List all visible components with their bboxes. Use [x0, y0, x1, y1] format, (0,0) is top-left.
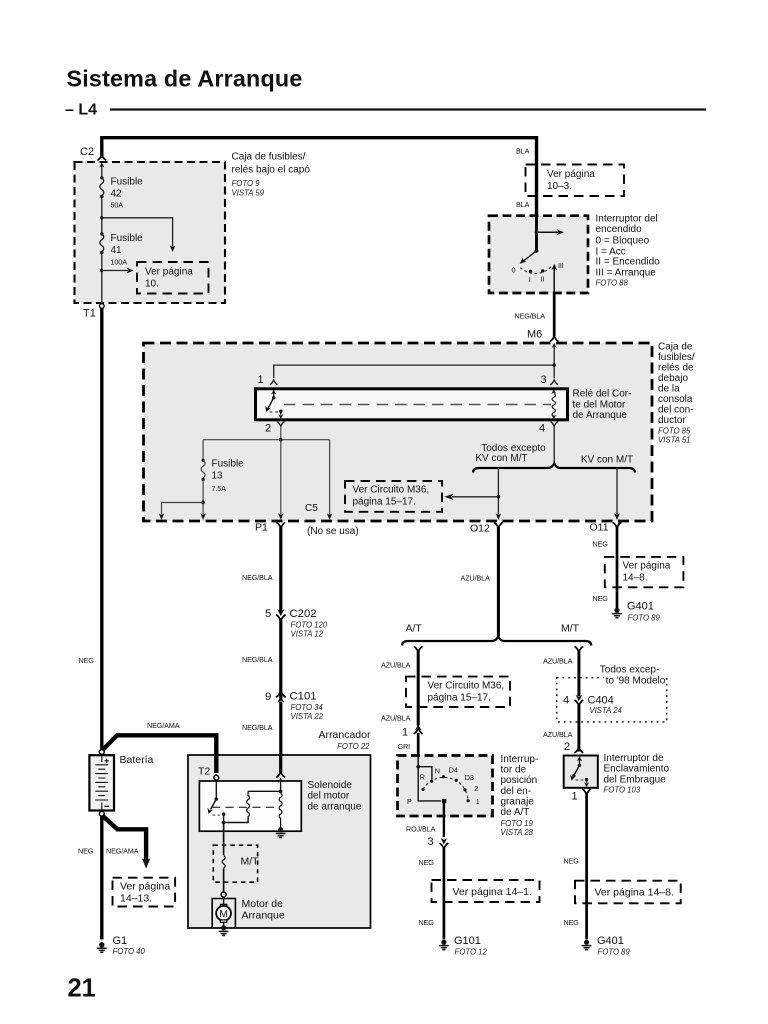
- connector solenoid input fork: [276, 772, 285, 777]
- svg-text:de Arranque: de Arranque: [573, 410, 628, 421]
- svg-text:C202: C202: [290, 608, 317, 620]
- wire: clutch down to G401: [585, 794, 588, 940]
- svg-text:FOTO 103: FOTO 103: [604, 786, 641, 795]
- svg-text:O12: O12: [470, 523, 490, 535]
- ref box Ver Circuito M36 (A/T): [406, 677, 510, 707]
- svg-text:Fusible: Fusible: [212, 459, 245, 470]
- relay mechanical dashed line: [284, 404, 551, 406]
- svg-text:NEG/BLA: NEG/BLA: [242, 655, 273, 664]
- svg-text:FOTO 22: FOTO 22: [337, 742, 370, 751]
- node clutch top contact: [578, 764, 581, 767]
- main under-dash fuse/relay box (dashed): [144, 343, 653, 521]
- svg-text:II: II: [541, 274, 545, 283]
- svg-text:FOTO 120: FOTO 120: [291, 621, 328, 630]
- ground motor: [221, 925, 226, 930]
- header rule: [110, 108, 706, 110]
- ground G401 lower: [584, 940, 589, 945]
- node pivot square: [442, 799, 446, 803]
- svg-text:Relé del Cor-: Relé del Cor-: [573, 389, 632, 400]
- svg-text:C101: C101: [290, 691, 317, 703]
- svg-text:VISTA 28: VISTA 28: [501, 828, 534, 837]
- svg-text:BLA: BLA: [516, 147, 530, 156]
- connector O12 cup: [494, 522, 503, 527]
- svg-text:G1: G1: [113, 935, 128, 947]
- svg-text:3: 3: [541, 374, 547, 386]
- relay Rele del Corte del Motor de Arranque: [256, 389, 568, 420]
- wire: T1 down to battery: [100, 308, 103, 749]
- svg-text:T1: T1: [83, 308, 96, 320]
- svg-text:FOTO 40: FOTO 40: [113, 947, 146, 956]
- svg-text:C5: C5: [305, 503, 318, 514]
- wire: branch O12 inside box: [497, 468, 499, 515]
- svg-text:(No se usa): (No se usa): [307, 526, 359, 537]
- svg-text:10–3.: 10–3.: [547, 181, 572, 192]
- svg-text:NEG/BLA: NEG/BLA: [242, 573, 273, 582]
- svg-text:C2: C2: [80, 146, 94, 158]
- ref box Ver pagina 14-8 lower: [575, 881, 681, 904]
- svg-text:2: 2: [564, 741, 570, 753]
- svg-text:Interruptor del: Interruptor del: [596, 213, 658, 224]
- svg-text:Ver Circuito M36,: Ver Circuito M36,: [353, 484, 430, 495]
- svg-text:AZU/BLA: AZU/BLA: [543, 730, 573, 739]
- solenoid box: [199, 781, 301, 831]
- svg-text:Ver Circuito M36,: Ver Circuito M36,: [428, 680, 505, 691]
- svg-text:ROJ/BLA: ROJ/BLA: [406, 824, 436, 833]
- svg-text:9: 9: [265, 691, 271, 703]
- ref box Ver pagina 14-8 upper: [605, 557, 684, 587]
- svg-text:Ver página: Ver página: [145, 267, 193, 278]
- A/T gear position switch box (dashed): [398, 756, 493, 817]
- svg-text:de la: de la: [658, 383, 680, 394]
- svg-text:NEG/AMA: NEG/AMA: [106, 847, 139, 856]
- svg-text:KV con M/T: KV con M/T: [475, 453, 527, 464]
- solenoid pull-in winding: [247, 791, 250, 818]
- svg-text:T2: T2: [198, 766, 210, 778]
- svg-text:VISTA 22: VISTA 22: [291, 712, 324, 721]
- wire: C5 leg: [329, 440, 331, 515]
- wire: winding to motor: [223, 868, 225, 892]
- svg-text:VISTA 24: VISTA 24: [589, 706, 622, 715]
- svg-text:G401: G401: [597, 935, 624, 947]
- svg-text:P: P: [407, 797, 412, 806]
- wire: NEG/BLA arrow into solenoid: [280, 781, 282, 794]
- svg-text:to '98 Modelo: to '98 Modelo: [606, 675, 666, 686]
- svg-text:C404: C404: [588, 694, 614, 706]
- svg-text:relés bajo el capó: relés bajo el capó: [232, 165, 311, 176]
- wire: M/T branch down: [577, 651, 580, 696]
- svg-text:de arranque: de arranque: [308, 801, 362, 812]
- clutch arrow up to pin2: [579, 760, 581, 766]
- svg-text:1: 1: [402, 727, 408, 739]
- heavy cable battery negative branch: [102, 816, 146, 861]
- wire: into ignition switch: [535, 216, 538, 251]
- motor M symbol: [223, 897, 225, 905]
- ref box Ver pagina 10: [137, 262, 209, 294]
- svg-text:1: 1: [572, 790, 578, 802]
- wire: A/T branch down: [417, 651, 420, 726]
- clutch switch arm: [574, 765, 579, 775]
- wire: pin2 down to junction: [280, 426, 282, 440]
- wire: battery NEG down to G1: [100, 816, 103, 940]
- svg-text:NEG: NEG: [419, 858, 435, 867]
- relay switch arm: [268, 398, 274, 409]
- node relay arm pivot: [272, 396, 275, 399]
- svg-text:Ver página: Ver página: [547, 169, 595, 180]
- svg-text:Enclavamiento: Enclavamiento: [604, 764, 670, 775]
- svg-text:Ver página: Ver página: [623, 561, 671, 572]
- svg-text:página 15–17.: página 15–17.: [353, 496, 416, 507]
- wire: left branch with two arrows down: [162, 503, 204, 515]
- ground G101: [441, 940, 446, 945]
- svg-text:Fusible: Fusible: [111, 177, 144, 188]
- connector O11 cup: [613, 522, 622, 527]
- svg-text:4: 4: [563, 694, 569, 706]
- svg-text:Solenoide: Solenoide: [308, 780, 353, 791]
- node T1 terminal: [100, 304, 105, 309]
- svg-text:Interrup-: Interrup-: [501, 754, 539, 765]
- wire: pin2 junction down to P1: [280, 440, 282, 515]
- svg-text:FOTO 85: FOTO 85: [658, 427, 691, 436]
- svg-text:Ver página 14–8.: Ver página 14–8.: [595, 887, 674, 899]
- svg-text:I: I: [529, 275, 531, 284]
- clutch contact arrow down: [586, 780, 588, 783]
- svg-text:Arrancador: Arrancador: [319, 729, 371, 741]
- svg-text:7.5A: 7.5A: [212, 484, 227, 493]
- wire: into A/T switch: [417, 733, 420, 756]
- solenoid hold-in winding: [279, 793, 282, 827]
- node solenoid top contact: [215, 797, 219, 801]
- svg-text:42: 42: [111, 189, 123, 200]
- starter Arrancador box: [188, 755, 371, 928]
- wire: horizontal bus to fuse13 and C5: [203, 439, 330, 441]
- node A/T junction: [416, 765, 420, 769]
- svg-text:N: N: [435, 767, 440, 776]
- fusible 41: [100, 232, 103, 235]
- svg-text:Ver página 14–1.: Ver página 14–1.: [453, 886, 532, 898]
- svg-text:R: R: [420, 773, 425, 782]
- svg-text:relés de: relés de: [658, 362, 694, 373]
- wire: NEG/BLA inside starter box: [279, 755, 282, 773]
- ref box Ver pagina 14-13: [113, 878, 176, 907]
- svg-text:2: 2: [265, 423, 271, 435]
- svg-text:3: 3: [428, 836, 434, 848]
- svg-text:III: III: [558, 261, 564, 270]
- wire: winding top to hold coil: [248, 790, 281, 792]
- svg-text:FOTO 89: FOTO 89: [628, 614, 661, 623]
- svg-text:41: 41: [111, 245, 123, 256]
- node junction M36 arrow: [497, 495, 501, 499]
- wire: fuse 13 leg: [202, 440, 204, 460]
- svg-text:NEG: NEG: [564, 857, 580, 866]
- svg-text:ductor: ductor: [658, 415, 686, 426]
- relay contact arrow down: [280, 411, 282, 415]
- wire: pin4 down to split brace: [553, 426, 555, 463]
- connector P1 cup: [276, 522, 285, 527]
- svg-text:VISTA 59: VISTA 59: [232, 189, 265, 198]
- svg-text:FOTO 89: FOTO 89: [598, 948, 631, 957]
- svg-text:NEG: NEG: [593, 540, 609, 549]
- ref box Ver pagina 10-3 (top right): [526, 165, 625, 197]
- svg-text:NEG: NEG: [78, 847, 94, 856]
- svg-text:Batería: Batería: [120, 754, 154, 766]
- svg-text:1: 1: [476, 797, 480, 806]
- wire: arrow to Ver Circuito M36: [452, 496, 498, 498]
- svg-text:posición: posición: [501, 775, 538, 786]
- svg-text:21: 21: [68, 975, 96, 1003]
- svg-text:O11: O11: [590, 522, 609, 534]
- wire: start feed arrow right: [535, 231, 559, 233]
- svg-text:NEG: NEG: [564, 918, 580, 927]
- fusible 42: [100, 178, 104, 196]
- ground G1: [99, 942, 104, 947]
- svg-text:0: 0: [512, 266, 516, 275]
- solenoid mechanical dashed line: [212, 806, 278, 808]
- relay pin1 arrow in: [273, 393, 275, 398]
- svg-text:tor de: tor de: [501, 765, 527, 776]
- wire: down to pivot: [418, 767, 441, 801]
- svg-text:M6: M6: [527, 329, 542, 341]
- node clutch right contact: [585, 778, 588, 781]
- ref box Ver Circuito M36 (in box): [345, 481, 442, 512]
- svg-text:100A: 100A: [111, 258, 128, 267]
- wire: branch O11 inside box: [616, 468, 618, 515]
- svg-text:del con-: del con-: [658, 404, 694, 415]
- C404 dotted box: [557, 678, 667, 722]
- wire: solenoid output down: [223, 823, 225, 856]
- node pin2 junction: [279, 438, 283, 442]
- svg-text:FOTO 19: FOTO 19: [501, 819, 534, 828]
- node output junction: [222, 821, 226, 825]
- ground in solenoid: [278, 827, 283, 832]
- svg-text:AZU/BLA: AZU/BLA: [543, 656, 573, 665]
- svg-text:D4: D4: [449, 766, 458, 775]
- wire: C101 down into starter box: [279, 702, 282, 756]
- relay coil: [552, 394, 555, 417]
- svg-text:Todos excep-: Todos excep-: [600, 664, 659, 675]
- svg-text:del en-: del en-: [501, 786, 532, 797]
- svg-text:consola: consola: [658, 394, 693, 405]
- svg-text:NEG/BLA: NEG/BLA: [515, 312, 546, 321]
- svg-text:Fusible: Fusible: [111, 233, 144, 244]
- svg-text:debajo: debajo: [658, 373, 688, 384]
- svg-text:– L4: – L4: [65, 102, 97, 119]
- wire: ignition to M6: [553, 293, 556, 337]
- wire: C2 arrow into fuse 42: [101, 166, 103, 178]
- heavy cable battery to T2: [102, 735, 216, 773]
- clutch link dashes: [576, 779, 585, 781]
- svg-text:III = Arranque: III = Arranque: [596, 267, 657, 278]
- motor box: [212, 899, 235, 928]
- svg-text:de A/T: de A/T: [501, 807, 530, 818]
- svg-text:Interruptor de: Interruptor de: [604, 753, 664, 764]
- fuse box under hood (dashed): [75, 162, 226, 303]
- svg-text:Caja de: Caja de: [658, 341, 693, 352]
- ignition switch box (dashed): [489, 216, 588, 293]
- ignition switch arm: [524, 251, 537, 261]
- svg-text:FOTO 34: FOTO 34: [291, 703, 324, 712]
- connector C2 fork: [97, 155, 106, 160]
- wire: to relay pin 3: [553, 365, 555, 378]
- wire: into switch to junction: [417, 756, 419, 767]
- svg-text:G101: G101: [454, 935, 481, 947]
- wire: M6 arrow into box down to junction: [553, 347, 555, 366]
- svg-text:FOTO 88: FOTO 88: [596, 278, 629, 287]
- wire: fuse42 to fuse41: [101, 197, 103, 234]
- connector M6 fork: [550, 336, 559, 341]
- svg-text:1: 1: [258, 374, 264, 386]
- svg-text:50A: 50A: [111, 201, 124, 210]
- wire: fuse13 to lower junction: [202, 480, 204, 503]
- svg-text:NEG: NEG: [593, 594, 609, 603]
- wire: fuse41 down to T1: [101, 253, 103, 305]
- node relay contact: [279, 410, 282, 413]
- svg-text:P1: P1: [255, 522, 268, 534]
- svg-text:G401: G401: [627, 601, 654, 613]
- wire: L to R/N contact: [418, 767, 432, 780]
- battery: [89, 755, 114, 810]
- svg-text:encendido: encendido: [596, 224, 643, 235]
- connector A/T cup: [414, 646, 423, 651]
- svg-text:VISTA 51: VISTA 51: [658, 436, 691, 445]
- svg-text:BLA: BLA: [516, 200, 530, 209]
- svg-text:FOTO 9: FOTO 9: [232, 179, 261, 188]
- solenoid switch arm: [211, 799, 217, 810]
- svg-text:te del Motor: te del Motor: [573, 399, 626, 410]
- svg-text:NEG: NEG: [79, 656, 95, 665]
- node solenoid contact: [222, 812, 226, 816]
- svg-text:A/T: A/T: [406, 623, 423, 635]
- svg-text:Todos excepto: Todos excepto: [481, 443, 546, 454]
- wire: C202 to C101: [279, 620, 282, 699]
- ignition contact arc: [520, 265, 552, 273]
- brace split A/T M/T: [402, 636, 591, 645]
- wire: down to G101: [443, 848, 446, 940]
- wire: III contact down out of switch: [553, 267, 555, 293]
- node motor terminal: [221, 892, 226, 897]
- svg-text:AZU/BLA: AZU/BLA: [381, 714, 411, 723]
- node M6 junction: [553, 363, 556, 366]
- brace split KV: [473, 463, 635, 472]
- node contact II: [541, 269, 544, 272]
- solenoid link dashes: [213, 814, 221, 816]
- M/T coil dotted box: [213, 845, 257, 882]
- svg-text:Motor de: Motor de: [242, 898, 284, 910]
- wire: O11 down: [616, 527, 619, 609]
- wire: top bus from C2 to ignition feed: [102, 138, 537, 215]
- svg-text:AZU/BLA: AZU/BLA: [461, 574, 491, 583]
- node junction arrow right: [100, 269, 103, 272]
- svg-text:página 15–17.: página 15–17.: [428, 692, 491, 703]
- svg-text:M: M: [219, 908, 228, 920]
- ref box Ver pagina 14-1: [432, 880, 540, 902]
- svg-text:14–8.: 14–8.: [623, 573, 648, 584]
- svg-text:del motor: del motor: [308, 791, 350, 802]
- svg-text:FOTO 12: FOTO 12: [455, 948, 488, 957]
- A/T contact arc: [423, 777, 468, 800]
- svg-text:KV con M/T: KV con M/T: [581, 454, 633, 465]
- svg-text:VISTA 12: VISTA 12: [291, 630, 324, 639]
- svg-text:GRI: GRI: [398, 742, 411, 751]
- svg-text:Ver página: Ver página: [120, 881, 170, 893]
- svg-text:del Embrague: del Embrague: [604, 774, 667, 785]
- svg-text:AZU/BLA: AZU/BLA: [381, 661, 411, 670]
- svg-text:10.: 10.: [145, 279, 159, 290]
- svg-text:fusibles/: fusibles/: [658, 352, 695, 363]
- wire: bus to relay pin 1: [274, 365, 555, 378]
- wire: T2 into solenoid: [215, 780, 217, 799]
- clutch interlock switch box: [564, 756, 598, 788]
- svg-text:M/T: M/T: [241, 856, 260, 868]
- svg-text:Sistema de Arranque: Sistema de Arranque: [67, 66, 303, 92]
- wire: pivot down out of switch: [443, 801, 445, 837]
- wire: branch to Ver pagina 10 (down arrow): [102, 218, 173, 247]
- wire: P1 down to C202: [279, 527, 282, 612]
- svg-text:II = Encendido: II = Encendido: [596, 256, 661, 267]
- svg-text:13: 13: [212, 471, 224, 482]
- svg-text:2: 2: [474, 784, 478, 793]
- svg-text:14–13.: 14–13.: [120, 893, 152, 905]
- wire: O12 down to AT/MT brace: [497, 527, 500, 636]
- svg-text:D3: D3: [465, 773, 474, 782]
- node contact I: [529, 270, 532, 273]
- wire: contact to pull-in winding: [224, 814, 249, 822]
- svg-text:NEG/BLA: NEG/BLA: [242, 723, 273, 732]
- svg-text:0 = Bloqueo: 0 = Bloqueo: [596, 235, 650, 246]
- wire: C404 to clutch switch: [577, 705, 580, 752]
- node junction to branch arrow: [100, 216, 103, 219]
- node ignition pivot: [535, 249, 539, 253]
- svg-text:granaje: granaje: [501, 796, 535, 807]
- relay arm link dashes: [270, 411, 279, 413]
- svg-text:NEG: NEG: [419, 918, 435, 927]
- connector M/T cup: [575, 646, 584, 651]
- svg-text:5: 5: [265, 608, 271, 620]
- svg-text:NEG/AMA: NEG/AMA: [147, 721, 180, 730]
- svg-text:Arranque: Arranque: [242, 910, 285, 922]
- ground G401 upper: [614, 608, 619, 613]
- fusible 13: [201, 460, 205, 478]
- svg-text:Caja de fusibles/: Caja de fusibles/: [232, 152, 306, 163]
- arc contact dots: [421, 788, 424, 791]
- M/T winding: [222, 856, 225, 869]
- svg-text:M/T: M/T: [561, 623, 580, 635]
- svg-text:4: 4: [539, 423, 545, 435]
